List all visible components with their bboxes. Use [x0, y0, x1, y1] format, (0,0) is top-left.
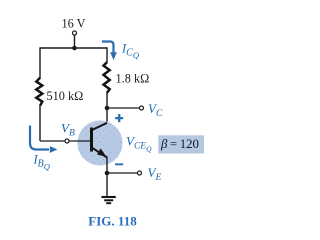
- ground: [102, 196, 116, 198]
- svg-text:β = 120: β = 120: [160, 137, 199, 151]
- transistor emitter lead: [92, 147, 108, 157]
- svg-text:VCEQ: VCEQ: [126, 133, 152, 153]
- transistor base bar: [90, 128, 93, 152]
- wire: terminal to top rail: [74, 35, 76, 48]
- plus sign: [115, 114, 123, 122]
- wire: emitter to ground: [106, 157, 108, 196]
- resistor RB 510 kOhm: [36, 78, 42, 106]
- terminal VC: [140, 106, 144, 110]
- node: emitter junction: [105, 171, 110, 176]
- wire: to VC terminal: [107, 107, 140, 109]
- svg-text:IBQ: IBQ: [33, 152, 50, 171]
- wire: to VE terminal: [107, 172, 137, 174]
- terminal VE: [138, 171, 142, 175]
- svg-text:510 kΩ: 510 kΩ: [47, 89, 84, 103]
- svg-text:FIG. 118: FIG. 118: [88, 213, 137, 228]
- svg-text:ICQ: ICQ: [121, 42, 139, 61]
- current arrow IBQ: [30, 126, 49, 150]
- resistor RC 1.8 kOhm: [104, 62, 110, 93]
- wire: base: [40, 140, 90, 142]
- svg-text:VC: VC: [148, 101, 163, 119]
- node: collector junction: [105, 106, 110, 111]
- wire: left branch lower: [39, 105, 41, 141]
- terminal VB: [65, 139, 69, 143]
- transistor emitter arrowhead: [97, 148, 106, 156]
- wire: top rail: [40, 47, 107, 49]
- wire: resistor to collector: [106, 93, 108, 124]
- minus sign: [115, 163, 123, 165]
- svg-text:16 V: 16 V: [61, 17, 85, 31]
- wire: right branch upper: [106, 47, 108, 62]
- node: top junction: [72, 46, 77, 51]
- svg-text:VB: VB: [61, 121, 75, 139]
- current arrow ICQ: [102, 42, 114, 54]
- supply terminal: [73, 31, 77, 35]
- beta highlight box: [158, 135, 204, 153]
- svg-text:1.8 kΩ: 1.8 kΩ: [116, 72, 150, 86]
- wire: left branch upper: [39, 47, 41, 78]
- transistor collector lead: [92, 123, 108, 130]
- svg-text:VE: VE: [148, 165, 162, 183]
- transistor Q1 shaded circle: [78, 121, 123, 166]
